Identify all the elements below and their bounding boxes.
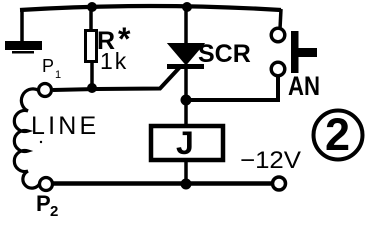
node junction bottom (relay) [181,179,192,190]
svg-text:1: 1 [55,69,61,81]
wire resistor top lead [89,7,93,31]
scan speck [40,141,42,143]
inductor LINE coil [14,89,40,188]
svg-text:2: 2 [50,203,58,220]
node junction SCR-relay [181,95,192,106]
svg-text:AN: AN [288,71,320,101]
label P1 [42,56,61,81]
svg-text:LINE: LINE [31,112,99,140]
node junction top SCR [182,2,192,12]
svg-text:P: P [36,191,51,216]
node resistor-gate junction [87,83,97,93]
wire SCR anode lead [184,7,188,47]
svg-text:P: P [42,56,54,76]
svg-text:2: 2 [325,109,350,160]
wire resistor bottom lead [90,61,94,85]
wire ground drop [20,9,24,42]
node P2 terminal [40,178,53,191]
wire top bus [20,6,281,10]
figure number 2 [314,109,363,160]
pushbutton AN [271,28,317,76]
svg-text:J: J [176,125,194,161]
node P1 terminal [39,84,52,97]
wire pushbutton top drop [280,9,281,29]
wire bottom bus [53,181,271,185]
wire SCR cathode lead [184,68,188,100]
svg-text:SCR: SCR [198,40,251,68]
SCR thyristor [167,44,204,67]
node -12V terminal [273,177,286,190]
wire gate run [53,67,180,90]
ground [5,41,42,54]
relay J box [151,126,223,160]
label P2 [36,191,58,220]
svg-text:1k: 1k [100,48,128,74]
value label R* 1k [97,21,131,74]
resistor R* [86,31,97,62]
svg-text:−12V: −12V [240,147,301,174]
wire to pushbutton [186,76,278,100]
wire relay top lead [184,100,188,126]
node junction top-left [87,2,97,12]
wire relay bottom lead [184,160,188,184]
